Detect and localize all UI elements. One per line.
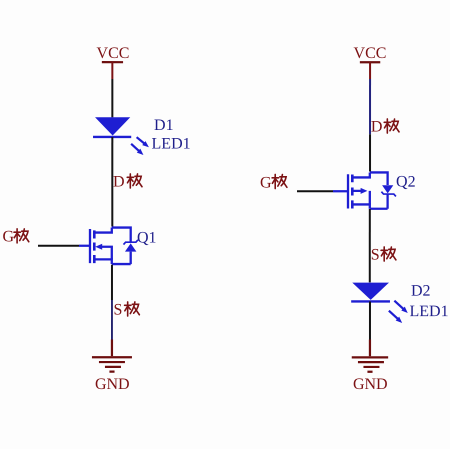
LED D2	[351, 283, 390, 302]
wire gate right	[297, 190, 333, 192]
svg-text:GND: GND	[353, 376, 388, 393]
wire to Q2 drain	[369, 134, 371, 171]
wire gate left	[38, 245, 79, 247]
Q1 gate lead	[79, 245, 89, 247]
Q1 source lead	[94, 259, 112, 264]
svg-text:G: G	[2, 228, 14, 245]
transistor Q1	[79, 228, 138, 265]
Q1 drain lead	[94, 228, 112, 233]
VCC stub left	[111, 62, 113, 79]
wire Q2 source to LED D2	[369, 209, 371, 282]
svg-text:D: D	[113, 173, 125, 190]
svg-text:LED1: LED1	[409, 303, 448, 320]
svg-text:LED1: LED1	[152, 135, 191, 152]
svg-text:G: G	[260, 175, 272, 192]
svg-text:Q2: Q2	[396, 174, 416, 191]
transistor Q2	[333, 172, 396, 208]
ground right	[352, 340, 388, 372]
svg-text:S: S	[113, 301, 122, 318]
wire LED D2 to ground	[369, 302, 371, 340]
wire LED D1 to Q1 drain	[111, 137, 113, 227]
wire segment navy	[111, 300, 113, 340]
wire VCC down (navy)	[369, 79, 371, 134]
VCC power bar right	[360, 61, 380, 63]
Q2 channel segments	[351, 175, 354, 183]
Q2 body arrow	[352, 191, 370, 205]
svg-text:D: D	[371, 119, 383, 136]
ground left	[92, 339, 132, 371]
svg-text:Q1: Q1	[137, 229, 157, 246]
svg-text:VCC: VCC	[354, 45, 387, 62]
LED D2 emission arrows	[389, 301, 408, 323]
LED D1 emission arrows	[131, 137, 149, 155]
Q1 body arrow	[100, 247, 111, 260]
Q1 channel segments	[93, 230, 96, 238]
svg-text:GND: GND	[95, 376, 130, 393]
node label D pole left	[113, 173, 142, 190]
Q2 body diode branch	[370, 172, 388, 185]
Q1 gate bar	[89, 229, 91, 263]
node label G pole right	[260, 174, 287, 191]
Q2 gate bar	[347, 174, 349, 208]
svg-text:S: S	[371, 247, 380, 264]
LED D1	[93, 117, 131, 137]
wire Q1 source down	[111, 265, 113, 300]
node label D pole right	[371, 119, 399, 136]
Q2 gate lead	[333, 190, 347, 192]
svg-text:D1: D1	[154, 117, 174, 134]
node label S pole right	[371, 247, 396, 264]
Q2 source lead	[352, 204, 370, 208]
node label S pole left	[113, 301, 139, 318]
VCC power bar left	[102, 61, 123, 63]
svg-text:D2: D2	[411, 283, 431, 300]
svg-text:VCC: VCC	[97, 45, 130, 62]
VCC stub right	[369, 62, 371, 79]
Q1 body diode branch	[112, 228, 131, 242]
wire VCC to LED D1	[111, 79, 113, 117]
node label G pole left	[2, 228, 28, 245]
Q2 drain lead	[352, 172, 370, 177]
